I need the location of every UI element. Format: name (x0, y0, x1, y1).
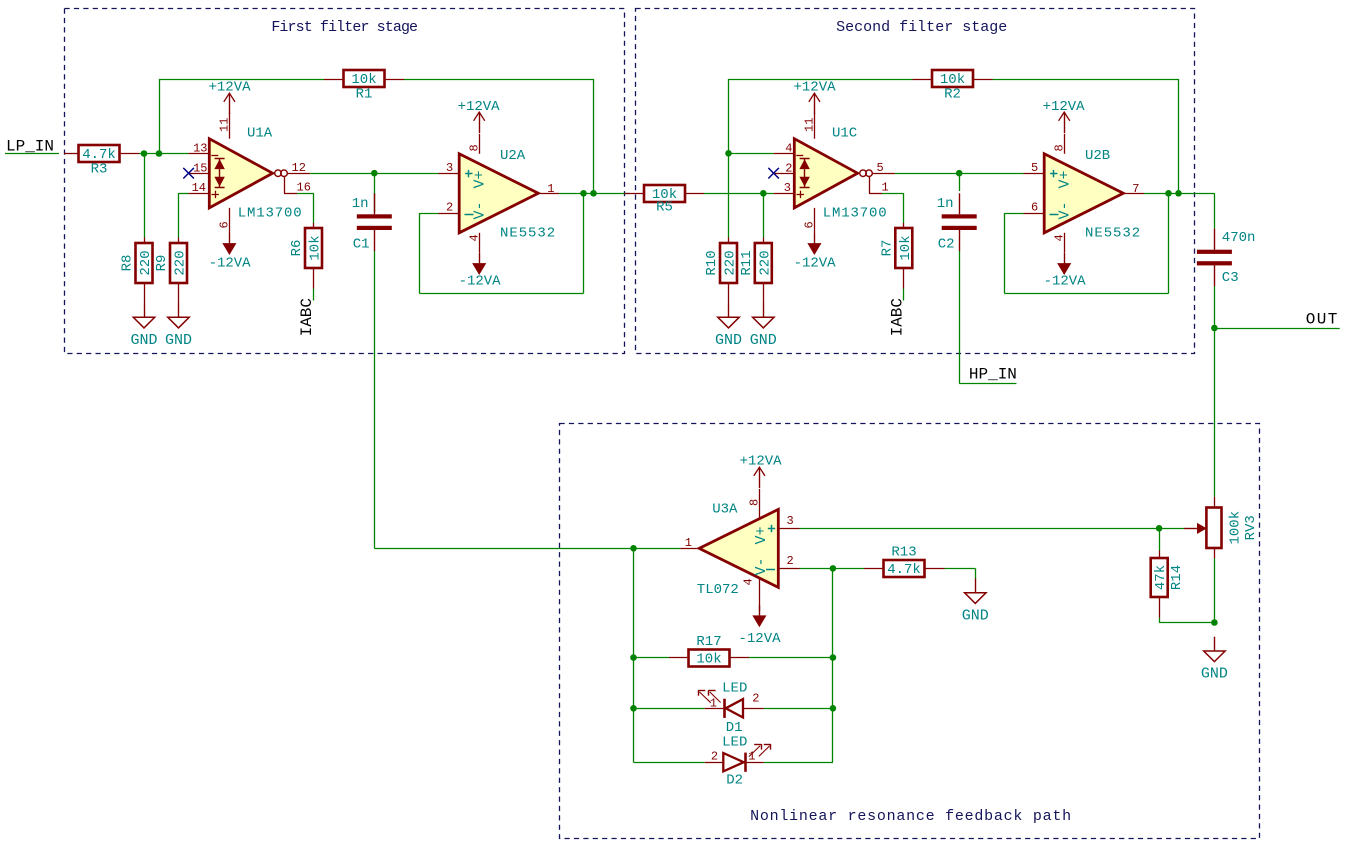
svg-text:8: 8 (748, 499, 762, 506)
svg-text:R10: R10 (704, 250, 720, 275)
svg-text:NE5532: NE5532 (500, 225, 556, 241)
svg-text:14: 14 (192, 181, 206, 195)
svg-text:3: 3 (446, 161, 453, 175)
svg-text:V-: V- (1057, 201, 1074, 219)
svg-text:C1: C1 (353, 236, 370, 252)
svg-text:NE5532: NE5532 (1085, 225, 1141, 241)
svg-text:220: 220 (173, 250, 189, 275)
svg-text:2: 2 (446, 201, 453, 215)
svg-text:Nonlinear resonance feedback p: Nonlinear resonance feedback path (750, 808, 1072, 825)
svg-text:220: 220 (723, 250, 739, 275)
svg-text:GND: GND (130, 332, 157, 349)
svg-text:LED: LED (722, 681, 747, 697)
svg-text:4: 4 (785, 141, 792, 155)
svg-text:R2: R2 (944, 87, 961, 103)
svg-text:IABC: IABC (888, 298, 906, 336)
svg-text:100k: 100k (1228, 511, 1244, 545)
svg-text:6: 6 (218, 221, 232, 228)
svg-text:16: 16 (297, 181, 311, 195)
svg-text:V+: V+ (753, 526, 770, 544)
svg-text:U2A: U2A (500, 148, 526, 164)
svg-text:-12VA: -12VA (794, 256, 837, 272)
svg-text:11: 11 (803, 118, 817, 132)
svg-text:5: 5 (877, 161, 884, 175)
svg-text:8: 8 (468, 144, 482, 151)
svg-text:U1A: U1A (247, 126, 273, 142)
svg-text:7: 7 (1132, 182, 1139, 196)
svg-text:2: 2 (787, 554, 794, 568)
svg-text:13: 13 (193, 141, 207, 155)
svg-text:R5: R5 (656, 200, 673, 216)
svg-text:R9: R9 (154, 255, 170, 272)
svg-text:GND: GND (962, 607, 989, 624)
svg-text:LED: LED (722, 735, 747, 751)
svg-text:1n: 1n (352, 196, 369, 212)
svg-text:12: 12 (292, 161, 306, 175)
svg-text:10k: 10k (696, 652, 721, 668)
svg-text:V+: V+ (472, 170, 489, 188)
svg-text:+12VA: +12VA (458, 99, 501, 115)
svg-text:10k: 10k (308, 235, 324, 260)
svg-text:V-: V- (753, 557, 770, 575)
svg-text:R1: R1 (356, 87, 373, 103)
svg-text:OUT: OUT (1306, 311, 1339, 329)
svg-text:D2: D2 (726, 773, 743, 789)
svg-text:1: 1 (710, 696, 717, 710)
svg-text:GND: GND (715, 332, 742, 349)
svg-text:1: 1 (748, 749, 755, 763)
svg-text:+12VA: +12VA (740, 454, 783, 470)
svg-text:15: 15 (193, 161, 207, 175)
svg-text:LM13700: LM13700 (823, 206, 888, 222)
svg-text:HP_IN: HP_IN (969, 366, 1017, 384)
svg-text:2: 2 (711, 749, 718, 763)
svg-text:8: 8 (1053, 144, 1067, 151)
svg-text:4: 4 (1053, 234, 1067, 241)
svg-text:3: 3 (784, 181, 791, 195)
svg-text:C2: C2 (938, 236, 955, 252)
svg-text:GND: GND (165, 332, 192, 349)
svg-text:+12VA: +12VA (1043, 99, 1086, 115)
svg-text:1: 1 (547, 182, 554, 196)
svg-text:GND: GND (1201, 666, 1228, 683)
svg-text:10k: 10k (898, 235, 914, 260)
svg-text:R14: R14 (1169, 565, 1185, 590)
svg-text:3: 3 (787, 514, 794, 528)
svg-text:R3: R3 (91, 162, 108, 178)
svg-text:TL072: TL072 (697, 582, 739, 598)
svg-text:220: 220 (757, 250, 773, 275)
svg-text:R13: R13 (891, 545, 916, 561)
svg-text:U1C: U1C (832, 126, 857, 142)
svg-text:LM13700: LM13700 (238, 206, 303, 222)
svg-text:11: 11 (218, 118, 232, 132)
svg-text:+12VA: +12VA (208, 79, 251, 95)
svg-text:Second filter stage: Second filter stage (836, 19, 1007, 36)
svg-text:V+: V+ (1057, 170, 1074, 188)
svg-text:U2B: U2B (1085, 148, 1110, 164)
svg-text:IABC: IABC (298, 298, 316, 336)
svg-text:470n: 470n (1222, 230, 1256, 246)
svg-text:R7: R7 (879, 240, 895, 257)
svg-text:U3A: U3A (712, 502, 738, 518)
svg-text:220: 220 (138, 250, 154, 275)
svg-text:C3: C3 (1222, 270, 1239, 286)
svg-text:R17: R17 (696, 634, 721, 650)
svg-text:-12VA: -12VA (738, 631, 781, 647)
svg-text:-12VA: -12VA (209, 256, 252, 272)
svg-text:-12VA: -12VA (459, 274, 502, 290)
svg-text:+12VA: +12VA (793, 79, 836, 95)
svg-text:First filter stage: First filter stage (271, 19, 418, 36)
svg-text:RV3: RV3 (1243, 515, 1259, 540)
svg-text:R11: R11 (739, 250, 755, 275)
svg-text:R6: R6 (289, 240, 305, 257)
svg-text:V-: V- (472, 201, 489, 219)
svg-text:47k: 47k (1153, 565, 1169, 590)
svg-text:GND: GND (750, 332, 777, 349)
svg-text:2: 2 (785, 161, 792, 175)
svg-text:1: 1 (882, 181, 889, 195)
svg-text:-12VA: -12VA (1044, 274, 1087, 290)
svg-text:4: 4 (742, 578, 756, 585)
svg-text:1: 1 (685, 536, 692, 550)
svg-text:6: 6 (1031, 201, 1038, 215)
svg-text:4: 4 (468, 234, 482, 241)
svg-text:4.7k: 4.7k (887, 562, 921, 578)
svg-text:2: 2 (752, 692, 759, 706)
svg-text:R8: R8 (120, 255, 136, 272)
svg-text:5: 5 (1031, 161, 1038, 175)
svg-text:1n: 1n (937, 196, 954, 212)
svg-text:6: 6 (803, 221, 817, 228)
